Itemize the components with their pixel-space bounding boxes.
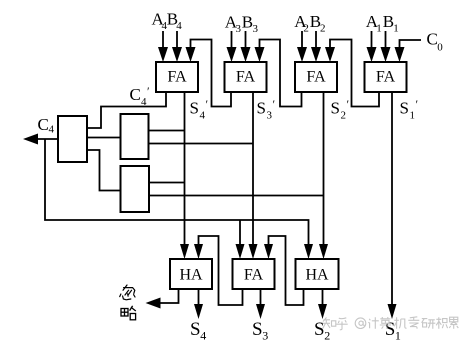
svg-text:1: 1 [376,22,382,34]
full adder FA5 (bottom row, S3) [233,259,275,289]
svg-text:4: 4 [49,124,55,136]
watermark char ji2 [436,317,447,328]
wire input B4 [172,31,182,62]
svg-text:HA: HA [305,267,329,284]
wire G3 input 1 from S4' [149,182,185,184]
or-gate G1 (correction detect) [58,116,87,162]
wire sum S2' from U2 down to HA2 [319,92,328,259]
svg-text:′: ′ [147,84,150,98]
wire carry from U1 to U2 [325,40,379,107]
svg-text:FA: FA [167,69,187,86]
wire HA1 carry out to ignored arrow [146,289,179,309]
wire carry from FA5 to HA1 [194,236,243,305]
wire output C4 with arrow [23,134,58,145]
svg-text:′: ′ [416,97,419,111]
wire input A3 [227,31,237,62]
watermark char ji3 [368,317,379,328]
svg-text:C: C [38,115,49,134]
svg-text:S: S [252,319,263,340]
wire carry C0 into U1 [395,40,422,62]
wire input B3 [241,31,251,62]
svg-text:1: 1 [395,328,401,342]
svg-text:′: ′ [347,97,350,111]
svg-text:′: ′ [273,97,276,111]
and-gate G3 [121,166,150,212]
watermark char suan [380,317,391,329]
svg-text:S: S [385,319,396,340]
svg-text:S: S [314,319,325,340]
svg-text:FA: FA [306,69,326,86]
watermark char lei [449,317,458,329]
watermark zhihu logo and attribution text [323,317,459,330]
wire input B2 [311,31,321,62]
svg-text:S: S [190,319,201,340]
wire G2 input 2 from S3' [149,143,254,145]
svg-text:0: 0 [437,41,443,53]
wire sum S1' from U1 down to output S1 [388,92,397,319]
wire input B1 [381,31,391,62]
svg-text:′: ′ [206,97,209,111]
full adder U3 (top row, bits A3 B3) [225,62,267,92]
svg-text:FA: FA [244,267,264,284]
wire input A2 [297,31,307,62]
svg-text:4: 4 [200,109,206,121]
svg-text:HA: HA [179,267,203,284]
half adder HA2 (bottom row, S2) [296,259,339,289]
svg-text:1: 1 [393,22,399,34]
wire carry from U2 to U3 [255,40,302,107]
svg-text:C: C [130,85,141,104]
svg-text:2: 2 [341,109,347,121]
svg-text:S: S [257,99,266,118]
wire carry from U3 to U4 [186,40,232,107]
wire G3 output to G1 [87,150,121,191]
svg-text:S: S [331,99,340,118]
label hu-lve (ignore) character 2: lve [121,306,136,320]
svg-text:C: C [427,30,438,49]
wire input A1 [367,31,377,62]
svg-text:S: S [190,99,199,118]
svg-text:2: 2 [324,328,330,342]
wire carry from HA2 to FA5 [264,236,304,305]
watermark char hu [336,318,347,330]
svg-text:4: 4 [200,328,206,342]
label hu-lve (ignore) character 1: hu [120,285,135,300]
wire sum S3' from U3 down to FA5 [249,92,258,259]
svg-text:B: B [242,13,253,32]
and-gate G2 [121,114,149,159]
svg-text:FA: FA [236,69,256,86]
wire C4 branch down and across to HA2 [45,139,313,259]
wire G2 input 1 from S4' [149,130,185,132]
full adder U4 (top row, bits A4 B4) [156,62,198,92]
svg-text:2: 2 [320,22,326,34]
watermark at-sign [355,318,366,329]
watermark char ji1 [394,317,406,328]
full adder U2 (top row, bits A2 B2) [295,62,337,92]
svg-text:1: 1 [410,109,416,121]
svg-text:3: 3 [262,328,268,342]
wire G3 input 2 from S2' [149,195,324,197]
wire output S4 [194,289,203,319]
watermark char zhi [323,318,330,329]
svg-text:FA: FA [376,69,396,86]
wire carry C4' from U4 to OR gate G1 [87,92,166,128]
wire G2 output to G1 [87,137,121,139]
svg-text:3: 3 [253,23,259,35]
svg-text:4: 4 [176,20,182,32]
wire C4 branch down to FA5 left input [236,220,245,259]
half adder HA1 (bottom row, S4) [170,259,212,289]
svg-text:3: 3 [267,109,273,121]
wire output S3 [256,289,265,319]
svg-text:3: 3 [236,23,242,35]
wire sum S4' from U4 down to HA1 [180,92,189,259]
svg-text:2: 2 [303,22,309,34]
wire input A4 [158,31,168,62]
svg-text:S: S [400,99,409,118]
watermark char yan [422,319,436,329]
full adder U1 (top row, bits A1 B1) [365,62,407,92]
wire output S2 [318,289,327,319]
watermark char kao [408,317,419,329]
